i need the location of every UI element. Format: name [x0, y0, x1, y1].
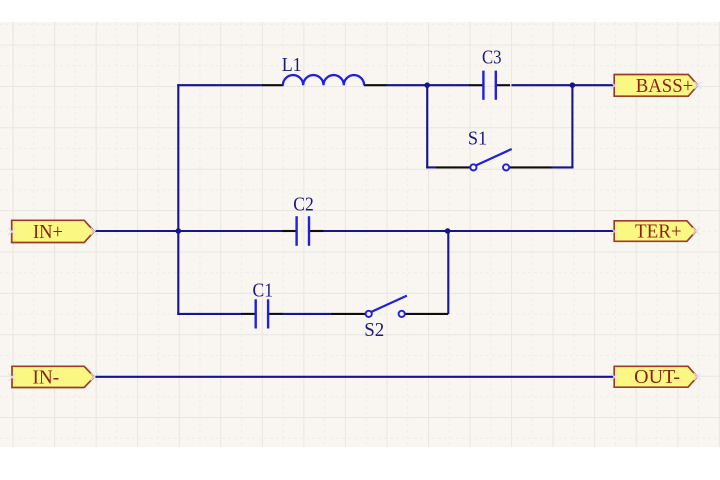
wire S1 right vertical up to junction C	[571, 84, 573, 168]
junction A	[176, 228, 182, 234]
switch S2	[331, 296, 449, 317]
wire S2 vertical up to junction D	[447, 230, 449, 314]
wire S1 loop bottom left	[426, 166, 435, 168]
svg-text:IN+: IN+	[33, 222, 63, 243]
label C1	[253, 281, 274, 302]
wire IN+ port to junction A	[94, 230, 178, 232]
label C2	[293, 195, 314, 216]
svg-text:C2: C2	[293, 195, 314, 216]
wire C1 branch left	[177, 313, 242, 315]
wire C1 to S2	[282, 313, 331, 315]
wire junction C to BASS+ port	[572, 84, 614, 86]
wire S1 right pin to right vertical	[552, 166, 574, 168]
port BASS+	[611, 75, 702, 97]
label L1	[282, 55, 302, 76]
port OUT-	[611, 366, 701, 388]
port IN-	[9, 366, 98, 388]
svg-text:S2: S2	[364, 320, 384, 341]
junction B	[424, 82, 430, 88]
label S2	[364, 320, 384, 341]
svg-text:BASS+: BASS+	[636, 76, 694, 97]
wire junction B down to S1	[426, 84, 428, 168]
wire junction B to C3 left pin	[427, 84, 470, 86]
inductor L1	[261, 75, 386, 85]
wire junction D to TER+ port	[448, 230, 615, 232]
wire C3 right pin to junction C	[511, 84, 572, 86]
wire junction A to C2 left pin	[178, 230, 283, 232]
label S1	[468, 128, 487, 149]
svg-text:C1: C1	[253, 281, 274, 302]
wire C2 right pin to junction D	[323, 230, 448, 232]
svg-text:S1: S1	[468, 128, 487, 149]
port TER+	[611, 221, 700, 243]
capacitor C1	[241, 299, 282, 328]
capacitor C2	[282, 216, 323, 246]
svg-text:C3: C3	[482, 48, 502, 69]
svg-text:IN-: IN-	[32, 367, 59, 388]
svg-text:OUT-: OUT-	[634, 367, 680, 388]
junction D	[445, 228, 451, 234]
port IN+	[8, 220, 98, 243]
switch S1	[435, 149, 551, 170]
label C3	[482, 48, 502, 69]
svg-text:L1: L1	[282, 55, 302, 76]
wire L1 to junction B	[387, 84, 428, 86]
wire junction A down to C1 branch	[177, 230, 179, 315]
wire top branch to L1	[177, 84, 261, 86]
capacitor C3	[469, 71, 510, 100]
wire junction A up to top branch	[177, 84, 179, 232]
wire IN- port to OUT- port	[94, 376, 614, 378]
svg-text:TER+: TER+	[635, 222, 682, 243]
junction C	[570, 82, 576, 88]
